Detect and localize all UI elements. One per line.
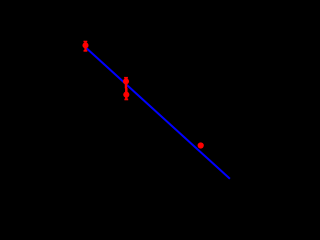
data point 2 error bar: [124, 78, 128, 89]
data point 2 marker: [123, 78, 129, 84]
data point 4 marker: [198, 142, 204, 148]
fit line (blue power-law fit): [86, 48, 230, 179]
data point 3 error bar: [124, 88, 128, 100]
data point 1 marker: [82, 42, 88, 48]
data point 1 error bar: [84, 41, 88, 51]
data point 3 marker: [123, 92, 129, 98]
